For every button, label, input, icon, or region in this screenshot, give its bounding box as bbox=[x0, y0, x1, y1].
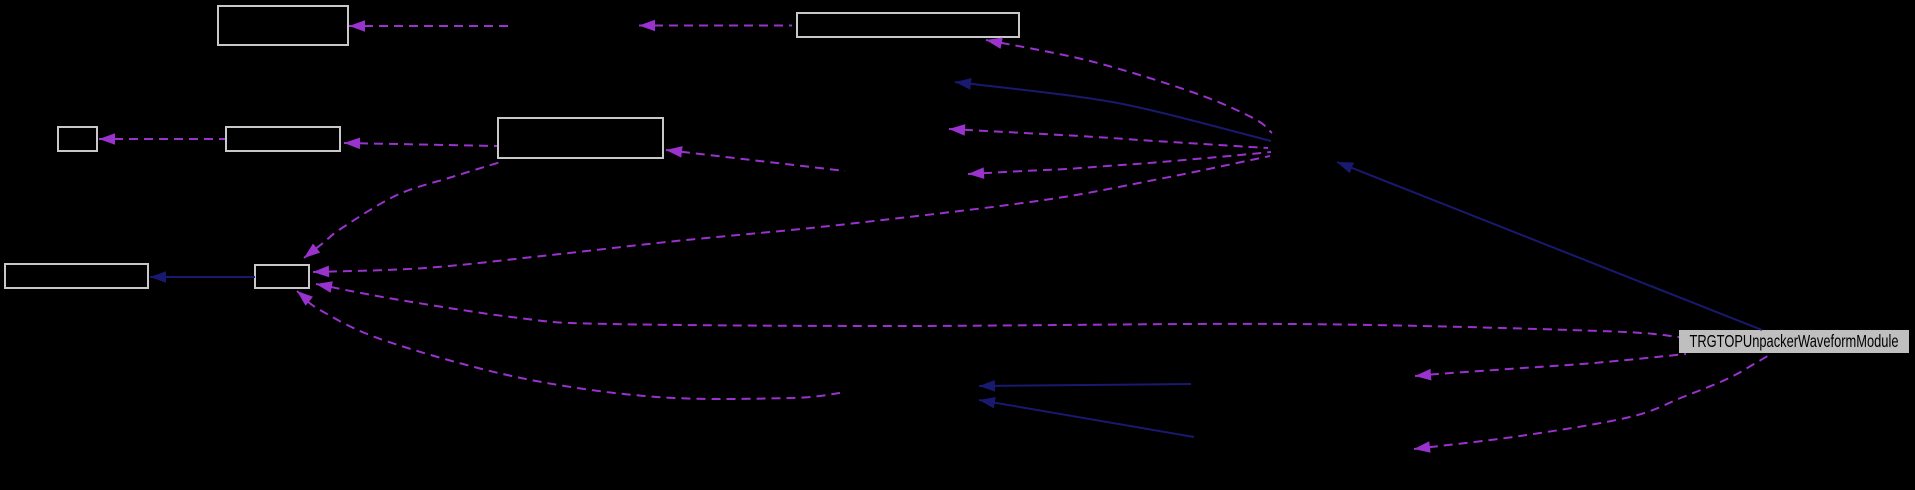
wire: node E -> node D bbox=[344, 138, 497, 150]
node H TRGTOPUnpackerWaveformModule (highlighted) bbox=[1679, 330, 1909, 353]
wire: node H -> hidden node Z bbox=[1414, 354, 1771, 453]
wire: node H -> hidden node Y bbox=[1415, 354, 1686, 381]
wire: node B -> hidden node bbox=[639, 20, 792, 32]
wire: hub -> hidden node b (blue) bbox=[955, 78, 1271, 141]
node F (class box, hidden label) bbox=[5, 264, 148, 288]
wire: hidden node -> node E bbox=[666, 146, 845, 171]
wire: hidden node X -> node G bbox=[297, 291, 840, 399]
wire: node H -> hub (blue) bbox=[1337, 162, 1762, 330]
node D (class box, hidden label) bbox=[226, 127, 340, 151]
node A (class box, hidden label) bbox=[218, 6, 348, 45]
wire: hidden node -> node A bbox=[349, 20, 514, 32]
svg-text:TRGTOPUnpackerWaveformModule: TRGTOPUnpackerWaveformModule bbox=[1690, 331, 1899, 351]
wire: hidden Z -> hidden X (blue) bbox=[979, 397, 1194, 437]
wire: hub -> hidden node d bbox=[968, 152, 1271, 179]
wire: hub -> node B corner bbox=[986, 38, 1272, 134]
node C (class box, hidden label) bbox=[58, 127, 97, 151]
node G (class box, hidden label) bbox=[255, 265, 309, 288]
node E (class box, hidden label) bbox=[498, 118, 663, 158]
wire: node H -> node G (long flat curve) bbox=[316, 281, 1679, 337]
wire: hidden Y -> hidden X (blue) bbox=[979, 380, 1191, 392]
wire: hub -> node G (long curve) bbox=[313, 156, 1270, 277]
wire: hub -> hidden node c bbox=[949, 124, 1268, 148]
wire: node G -> node F (blue) bbox=[150, 271, 255, 283]
wire: node D -> node C bbox=[99, 133, 225, 145]
node B (class box, hidden label) bbox=[797, 13, 1019, 37]
wire: node E -> node G bbox=[304, 161, 504, 258]
